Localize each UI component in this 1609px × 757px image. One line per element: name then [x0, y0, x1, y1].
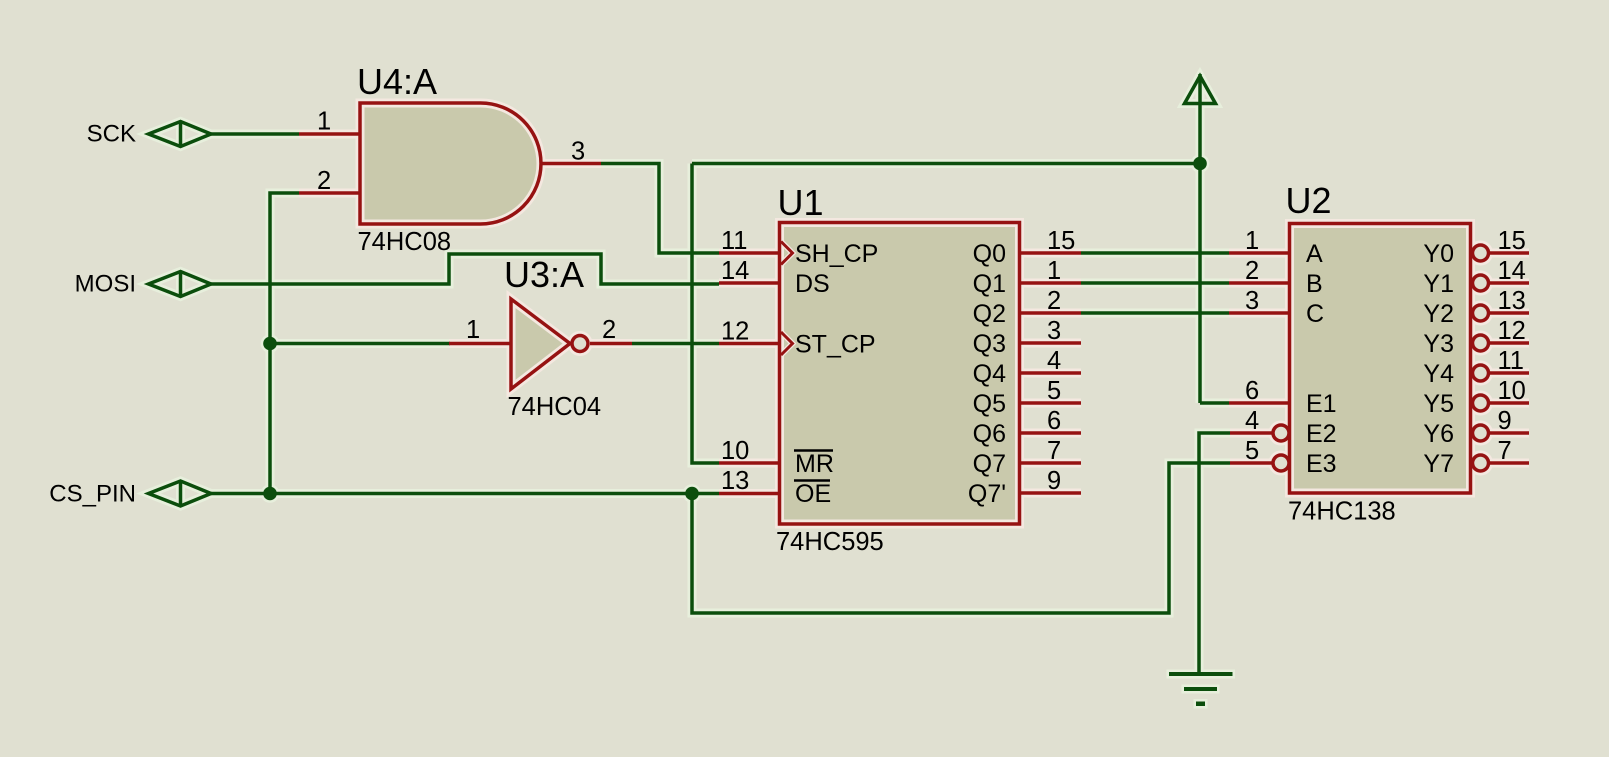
svg-text:13: 13 [721, 467, 749, 495]
svg-text:10: 10 [721, 437, 749, 465]
svg-text:5: 5 [1245, 437, 1259, 465]
svg-text:11: 11 [721, 227, 747, 255]
svg-text:Q5: Q5 [973, 390, 1006, 418]
svg-text:Q7': Q7' [968, 480, 1006, 508]
svg-text:Y4: Y4 [1423, 360, 1454, 388]
svg-text:Q1: Q1 [973, 270, 1006, 298]
svg-text:11: 11 [1498, 347, 1524, 375]
svg-text:DS: DS [795, 270, 830, 298]
svg-text:Q4: Q4 [973, 360, 1006, 388]
svg-text:3: 3 [1047, 317, 1061, 345]
svg-text:OE: OE [795, 480, 831, 508]
svg-text:1: 1 [317, 108, 331, 136]
svg-text:6: 6 [1245, 377, 1259, 405]
svg-text:Y7: Y7 [1423, 450, 1454, 478]
svg-text:Y0: Y0 [1423, 240, 1454, 268]
svg-text:ST_CP: ST_CP [795, 331, 876, 359]
svg-text:1: 1 [1047, 257, 1061, 285]
svg-text:Y5: Y5 [1423, 390, 1454, 418]
svg-text:1: 1 [466, 316, 480, 344]
svg-text:MOSI: MOSI [75, 271, 136, 298]
svg-text:2: 2 [1047, 287, 1061, 315]
svg-text:Y2: Y2 [1423, 300, 1454, 328]
svg-text:74HC138: 74HC138 [1288, 498, 1396, 526]
svg-text:U1: U1 [778, 182, 824, 223]
svg-text:7: 7 [1498, 437, 1512, 465]
svg-text:Y3: Y3 [1423, 330, 1454, 358]
svg-text:CS_PIN: CS_PIN [49, 481, 136, 508]
svg-text:Q0: Q0 [973, 240, 1006, 268]
svg-text:U3:A: U3:A [504, 254, 584, 295]
svg-text:E1: E1 [1306, 390, 1337, 418]
svg-text:74HC595: 74HC595 [776, 528, 884, 556]
svg-text:10: 10 [1498, 377, 1526, 405]
svg-text:74HC04: 74HC04 [508, 393, 602, 421]
svg-text:2: 2 [1245, 257, 1259, 285]
svg-text:14: 14 [721, 257, 749, 285]
svg-text:3: 3 [571, 138, 585, 166]
svg-text:Q6: Q6 [973, 420, 1006, 448]
svg-text:A: A [1306, 240, 1323, 268]
svg-text:15: 15 [1498, 227, 1526, 255]
svg-text:7: 7 [1047, 437, 1061, 465]
svg-text:Q7: Q7 [973, 450, 1006, 478]
svg-text:Q2: Q2 [973, 300, 1006, 328]
svg-text:13: 13 [1498, 287, 1526, 315]
svg-text:E3: E3 [1306, 450, 1337, 478]
svg-text:14: 14 [1498, 257, 1526, 285]
svg-text:MR: MR [795, 450, 834, 478]
svg-text:B: B [1306, 270, 1323, 298]
svg-text:6: 6 [1047, 407, 1061, 435]
svg-text:U4:A: U4:A [357, 61, 437, 102]
svg-text:Q3: Q3 [973, 330, 1006, 358]
svg-text:15: 15 [1047, 227, 1075, 255]
svg-text:Y6: Y6 [1423, 420, 1454, 448]
svg-text:SH_CP: SH_CP [795, 240, 878, 268]
svg-text:9: 9 [1498, 407, 1512, 435]
svg-text:E2: E2 [1306, 420, 1337, 448]
svg-text:74HC08: 74HC08 [358, 228, 452, 256]
svg-text:12: 12 [1498, 317, 1526, 345]
svg-text:3: 3 [1245, 287, 1259, 315]
svg-text:9: 9 [1047, 467, 1061, 495]
svg-text:Y1: Y1 [1423, 270, 1454, 298]
svg-text:4: 4 [1245, 407, 1259, 435]
svg-text:12: 12 [721, 318, 749, 346]
svg-text:2: 2 [602, 316, 616, 344]
svg-text:U2: U2 [1286, 180, 1332, 221]
svg-text:4: 4 [1047, 347, 1061, 375]
svg-text:SCK: SCK [87, 121, 136, 148]
svg-text:C: C [1306, 300, 1324, 328]
svg-text:1: 1 [1245, 227, 1259, 255]
svg-text:5: 5 [1047, 377, 1061, 405]
svg-text:2: 2 [317, 167, 331, 195]
